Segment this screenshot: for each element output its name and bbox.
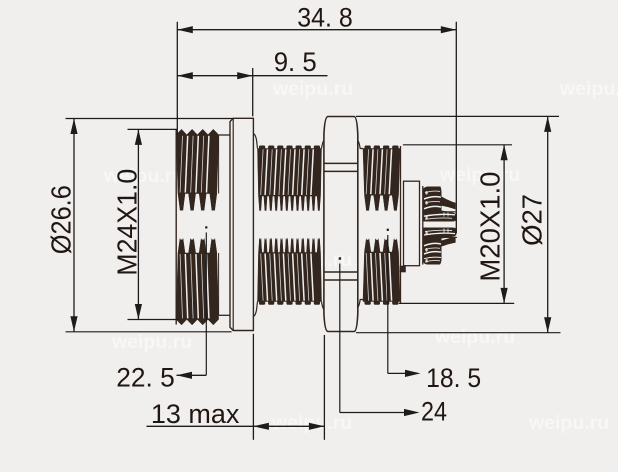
svg-text:22. 5: 22. 5 xyxy=(116,363,175,393)
svg-text:weipu.ru: weipu.ru xyxy=(272,78,353,100)
svg-text:weipu.ru: weipu.ru xyxy=(434,326,515,348)
svg-text:Ø26.6: Ø26.6 xyxy=(45,185,76,254)
svg-text:34. 8: 34. 8 xyxy=(297,2,353,32)
svg-text:9. 5: 9. 5 xyxy=(274,47,317,77)
svg-text:weipu.ru: weipu.ru xyxy=(271,412,352,434)
svg-text:Ø27: Ø27 xyxy=(517,194,548,246)
svg-text:24: 24 xyxy=(421,396,447,426)
svg-text:weipu.ru: weipu.ru xyxy=(528,412,609,434)
svg-text:18. 5: 18. 5 xyxy=(426,363,481,393)
svg-text:13 max: 13 max xyxy=(151,399,240,429)
svg-text:weipu.ru: weipu.ru xyxy=(559,78,618,100)
svg-text:weipu.ru: weipu.ru xyxy=(111,331,192,353)
svg-text:M24X1.0: M24X1.0 xyxy=(111,169,142,276)
svg-text:M20X1.0: M20X1.0 xyxy=(474,172,505,282)
